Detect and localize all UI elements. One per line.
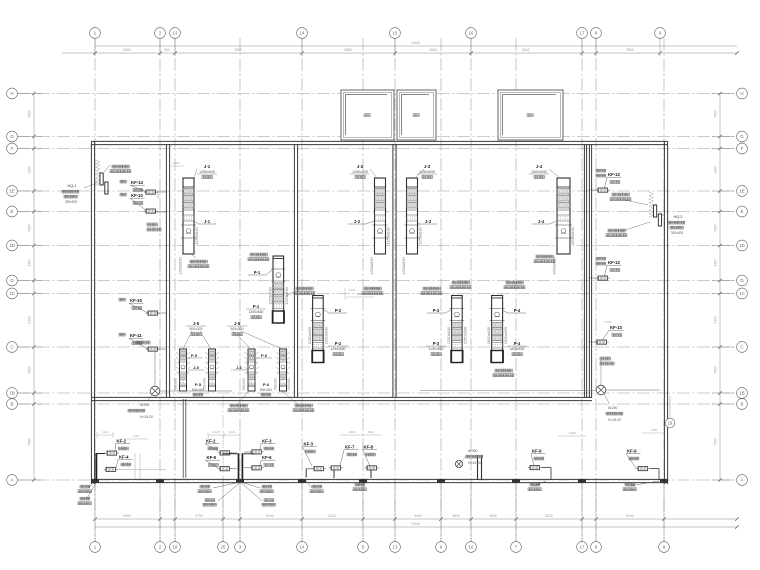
local dimension 2200 at J-1: [168, 161, 184, 166]
svg-text:5400: 5400: [714, 224, 718, 231]
outdoor unit KF-9 a with label: [528, 449, 551, 481]
svg-text:1D: 1D: [739, 243, 745, 248]
grid: vertical axis lines: [95, 38, 664, 542]
svg-text:500x320: 500x320: [260, 388, 272, 392]
outdoor unit KF-12 lower with label: [590, 257, 622, 280]
svg-text:1250x630: 1250x630: [249, 310, 264, 314]
svg-text:5220: 5220: [328, 514, 336, 518]
svg-text:1250x630: 1250x630: [401, 256, 406, 274]
svg-text:J-2: J-2: [354, 219, 361, 224]
svg-text:3600: 3600: [452, 514, 460, 518]
exhaust duct P-2: [307, 296, 328, 363]
svg-text:9300: 9300: [234, 48, 242, 52]
note mesh under J-2: [362, 287, 383, 295]
svg-text:2700: 2700: [605, 320, 612, 324]
svg-text:1C: 1C: [739, 291, 745, 296]
svg-text:1B: 1B: [739, 391, 744, 396]
svg-text:18: 18: [173, 545, 178, 550]
svg-text:2700: 2700: [195, 514, 203, 518]
exhaust duct P-3: [446, 296, 467, 363]
riser pipe arm axis1: [97, 453, 105, 455]
label J-5 block: [183, 321, 211, 349]
label P-1 lower block: [246, 304, 266, 319]
svg-text:H=15.00: H=15.00: [468, 461, 481, 465]
svg-text:17: 17: [580, 31, 585, 36]
svg-text:4560: 4560: [429, 48, 437, 52]
svg-text:KF-4: KF-4: [119, 455, 129, 460]
note mesh HQ-2 above: [610, 193, 648, 205]
svg-text:KF-9: KF-9: [532, 449, 542, 454]
svg-text:4500: 4500: [28, 366, 32, 373]
wall: building bottom wall A: [91, 479, 668, 483]
bottom axis circles: [90, 542, 670, 553]
right dimension chain: [712, 92, 734, 482]
svg-text:500x320: 500x320: [287, 378, 291, 390]
note mesh left of axis13 top: [104, 165, 131, 173]
svg-text:25: 25: [221, 545, 226, 550]
svg-text:8220: 8220: [545, 514, 553, 518]
outdoor unit KF-3 right with label: [303, 442, 326, 478]
svg-text:2,111: 2,111: [229, 430, 236, 434]
svg-text:1600x630: 1600x630: [531, 170, 547, 174]
svg-text:KF-12: KF-12: [608, 172, 621, 177]
wall: interior wall at axis 13: [166, 144, 169, 398]
svg-text:17: 17: [580, 545, 585, 550]
wall: interior wall at axis 15: [393, 144, 396, 398]
wall fan HQ-1: [96, 160, 109, 194]
wall: interior wall at axis 14: [294, 144, 297, 398]
svg-text:J-1: J-1: [204, 164, 211, 169]
svg-text:9000: 9000: [414, 514, 422, 518]
svg-text:1D: 1D: [9, 243, 15, 248]
note mesh right of P-1: [286, 287, 315, 296]
svg-text:4,020: 4,020: [569, 431, 576, 435]
left dimension chain: [18, 92, 42, 482]
svg-text:KF-11: KF-11: [130, 333, 142, 338]
svg-text:P-2: P-2: [335, 341, 342, 346]
local dimensions above KF-7/8: [340, 430, 382, 435]
svg-text:J-5: J-5: [193, 365, 200, 370]
outdoor unit KF-3 mid with label: [244, 439, 276, 455]
svg-text:2200: 2200: [173, 161, 180, 165]
label HQ-2: [660, 212, 685, 235]
svg-text:J-4: J-4: [538, 219, 545, 224]
svg-text:KF-3: KF-3: [262, 439, 272, 444]
roof machine room left B: [397, 90, 436, 140]
svg-text:6000: 6000: [123, 48, 131, 52]
svg-text:HQ-2: HQ-2: [673, 215, 682, 219]
outdoor unit KF-11 with label: [119, 333, 166, 351]
outdoor unit KF-6 with label: [244, 455, 276, 470]
svg-text:J-2: J-2: [357, 164, 364, 169]
label HQ-1: [62, 183, 97, 204]
right axis circles: [737, 88, 748, 485]
supply duct J-1: [178, 178, 200, 275]
svg-text:H: H: [740, 91, 743, 96]
pipe leaders below bottom wall mid: [198, 482, 275, 506]
wall: interior double wall at axis 17-8: [584, 144, 591, 398]
svg-text:5100: 5100: [28, 316, 32, 323]
svg-text:1B: 1B: [9, 391, 14, 396]
svg-text:71045: 71045: [410, 522, 419, 526]
outdoor unit KF-2 left with label: [105, 439, 130, 456]
label J-6 mid: [231, 365, 247, 370]
label J-4 top: [529, 164, 560, 179]
exhaust duct P-1: [268, 256, 289, 323]
note mesh HQ-2 below: [606, 222, 650, 237]
svg-text:1250x630: 1250x630: [419, 170, 435, 174]
svg-text:1250x630: 1250x630: [429, 347, 444, 351]
small duct column J-6/P-6 a: [244, 349, 258, 391]
svg-text:1250x630: 1250x630: [178, 256, 183, 274]
KF-9 local dim line a: [345, 288, 356, 300]
axis circle 19 local: [665, 396, 675, 428]
svg-text:3900: 3900: [626, 48, 634, 52]
svg-text:500x320: 500x320: [192, 388, 204, 392]
label P-2 lower block: [328, 341, 348, 356]
svg-text:320x200: 320x200: [65, 200, 77, 204]
left axis circles: [7, 88, 18, 485]
svg-text:3025: 3025: [156, 191, 160, 198]
svg-text:500x320: 500x320: [242, 378, 246, 390]
svg-text:1250x630: 1250x630: [446, 326, 451, 344]
svg-text:#1200: #1200: [140, 403, 150, 407]
svg-text:D: D: [10, 278, 13, 283]
small duct column J-5/P-5 b: [205, 349, 219, 391]
label P-5 lower: [192, 382, 204, 396]
svg-text:1E: 1E: [739, 189, 744, 194]
svg-text:J-6: J-6: [234, 321, 241, 326]
label J-2 mid: [348, 219, 374, 224]
svg-text:J-6: J-6: [236, 365, 243, 370]
svg-text:500x320: 500x320: [189, 327, 202, 331]
local dimension 1770: [124, 434, 148, 439]
roof machine room right: [498, 90, 563, 140]
size labels 500x320 on small ducts: [174, 378, 292, 390]
wall: interior wall B-line: [91, 397, 592, 400]
svg-text:4500: 4500: [714, 110, 718, 117]
supply duct J-4: [552, 178, 576, 275]
svg-text:3300: 3300: [714, 259, 718, 266]
svg-text:2755: 2755: [651, 428, 658, 432]
svg-text:KF-12: KF-12: [608, 260, 621, 265]
local dimension 3025 left: [156, 191, 160, 198]
svg-text:1250x630: 1250x630: [194, 226, 199, 244]
label P-1 upper: [248, 270, 272, 275]
svg-text:P-3: P-3: [433, 341, 440, 346]
wall fan HQ-2: [649, 192, 662, 226]
svg-text:500x320: 500x320: [174, 378, 178, 390]
svg-text:A: A: [741, 478, 744, 483]
floor drain mid-bottom: [455, 449, 482, 468]
label P-4 lower block: [507, 341, 527, 356]
svg-text:1250x630: 1250x630: [284, 286, 289, 304]
svg-text:P-5: P-5: [195, 382, 202, 387]
label J-3 mid: [417, 219, 437, 224]
outdoor unit KF-9 b with label: [626, 449, 659, 481]
local dimension 4225 mid lower: [346, 292, 374, 297]
svg-text:6642: 6642: [522, 48, 530, 52]
svg-text:1600x630: 1600x630: [570, 226, 575, 244]
supply duct J-3: [401, 178, 423, 275]
local dimension 4020: [558, 431, 586, 436]
outdoor unit KF-7 with label: [329, 445, 359, 479]
outdoor unit KF-2 mid with label: [205, 439, 237, 456]
refrigerant pipe drop near axis 1: [183, 399, 186, 478]
bottom dimension chain: [93, 478, 739, 542]
svg-text:13: 13: [393, 545, 398, 550]
svg-text:15: 15: [393, 31, 398, 36]
svg-text:1250x630: 1250x630: [386, 226, 391, 244]
svg-text:3300: 3300: [28, 259, 32, 266]
svg-text:16: 16: [469, 545, 474, 550]
svg-text:19: 19: [668, 421, 673, 426]
svg-text:7500: 7500: [714, 438, 718, 445]
svg-text:KF-2: KF-2: [117, 439, 127, 444]
svg-text:1770: 1770: [133, 434, 140, 438]
svg-text:320x200: 320x200: [671, 231, 683, 235]
small duct column J-6/P-6 b: [276, 349, 290, 391]
note mesh under J-3: [421, 287, 442, 295]
svg-text:2,110: 2,110: [102, 430, 109, 434]
svg-text:1600x630: 1600x630: [486, 326, 491, 344]
roof drain at axis14 B: [128, 352, 232, 419]
svg-text:J-3: J-3: [424, 164, 431, 169]
svg-text:6000: 6000: [123, 514, 131, 518]
small duct column J-5/P-5 a: [176, 349, 190, 391]
riser pipes at axis 1: [95, 453, 97, 480]
svg-text:1250x630: 1250x630: [268, 286, 273, 304]
svg-text:KF-9: KF-9: [627, 449, 637, 454]
wall: building left wall: [91, 141, 94, 484]
svg-text:1250x630: 1250x630: [323, 326, 328, 344]
svg-text:KF-5: KF-5: [207, 455, 217, 460]
label J-2 top: [350, 164, 377, 179]
svg-text:P-2: P-2: [335, 308, 342, 313]
svg-text:KF-13: KF-13: [610, 325, 623, 330]
svg-text:J-5: J-5: [193, 321, 200, 326]
note mesh above P-4: [504, 281, 525, 289]
svg-text:P-6: P-6: [261, 353, 268, 358]
local dimension 2110 left bottom: [97, 430, 113, 438]
local dimension 2755 right: [642, 428, 666, 433]
svg-text:1250x630: 1250x630: [462, 326, 467, 344]
svg-text:KF-7: KF-7: [345, 445, 355, 450]
svg-text:5580: 5580: [344, 48, 352, 52]
outdoor unit KF-13 with label: [590, 320, 624, 365]
svg-text:4200: 4200: [28, 166, 32, 173]
outdoor unit KF-14 with label: [120, 180, 166, 194]
svg-text:H: H: [10, 91, 13, 96]
svg-text:900: 900: [164, 48, 170, 52]
svg-text:1250x630: 1250x630: [331, 347, 346, 351]
svg-text:J-1: J-1: [204, 219, 211, 224]
svg-text:8100: 8100: [266, 514, 274, 518]
outdoor unit KF-10 with label: [120, 193, 166, 231]
svg-text:P-3: P-3: [433, 308, 440, 313]
svg-text:2,125: 2,125: [349, 288, 356, 292]
svg-text:1250x630: 1250x630: [418, 226, 423, 244]
svg-text:4500: 4500: [28, 110, 32, 117]
label P-3 upper: [427, 308, 451, 313]
outdoor unit KF-8 with label: [363, 445, 379, 479]
top axis circles: [90, 28, 666, 39]
note mesh under J-4: [534, 255, 555, 263]
svg-text:7500: 7500: [28, 438, 32, 445]
label J-5 mid: [188, 365, 204, 370]
svg-text:E: E: [741, 209, 744, 214]
note mesh below small ducts b: [283, 392, 314, 412]
svg-text:8100: 8100: [626, 514, 634, 518]
label J-6 block: [227, 321, 282, 349]
svg-text:B: B: [11, 402, 14, 407]
svg-text:H=15.00: H=15.00: [140, 415, 153, 419]
supply duct J-2: [369, 178, 391, 275]
svg-text:71045: 71045: [410, 41, 419, 45]
svg-text:1600x630: 1600x630: [510, 347, 525, 351]
svg-text:2,125: 2,125: [213, 430, 220, 434]
note mesh under J-1: [188, 254, 209, 268]
outdoor unit KF-12 upper with label: [590, 169, 622, 192]
svg-text:14: 14: [300, 545, 305, 550]
label J-1 mid: [194, 219, 216, 224]
note mesh below small ducts a: [228, 392, 249, 412]
svg-text:C: C: [740, 345, 743, 350]
svg-text:J-3: J-3: [425, 219, 432, 224]
svg-text:1250x630: 1250x630: [352, 170, 368, 174]
svg-text:F: F: [741, 146, 744, 151]
svg-text:500x320: 500x320: [230, 327, 243, 331]
svg-text:G: G: [10, 134, 14, 139]
svg-text:1600x630: 1600x630: [503, 326, 508, 344]
label P-5 upper: [186, 353, 202, 358]
svg-text:4500: 4500: [489, 514, 497, 518]
svg-text:KF-3: KF-3: [304, 442, 314, 447]
svg-text:16: 16: [469, 31, 474, 36]
label P-4 upper: [502, 308, 526, 313]
svg-text:P-6: P-6: [263, 382, 270, 387]
svg-text:J-4: J-4: [536, 164, 543, 169]
svg-text:1E: 1E: [9, 189, 14, 194]
svg-text:1250x630: 1250x630: [307, 326, 312, 344]
note mesh near HQ-2 upper: [493, 369, 514, 377]
riser pipes at axis 3: [223, 453, 255, 479]
svg-text:P-1: P-1: [253, 304, 260, 309]
note mesh above P-3: [450, 281, 471, 289]
svg-text:KF-10: KF-10: [131, 193, 144, 198]
label J-3 top: [415, 164, 437, 179]
svg-text:P-1: P-1: [254, 270, 261, 275]
riser pipes at axis 16: [478, 455, 482, 480]
svg-text:H=15.00: H=15.00: [608, 418, 621, 422]
svg-text:4,225: 4,225: [357, 292, 364, 296]
svg-text:B: B: [741, 402, 744, 407]
label P-6 lower: [260, 382, 272, 396]
svg-text:1250x630: 1250x630: [199, 170, 215, 174]
outdoor unit KF-5 with label: [206, 455, 238, 471]
svg-text:C: C: [10, 345, 13, 350]
svg-text:1C: 1C: [9, 291, 15, 296]
svg-text:2911: 2911: [368, 430, 374, 434]
svg-text:500x320: 500x320: [274, 378, 278, 390]
svg-text:P-5: P-5: [191, 353, 198, 358]
svg-text:KF-2: KF-2: [206, 439, 216, 444]
svg-text:D: D: [740, 278, 743, 283]
svg-text:F: F: [11, 146, 14, 151]
label J-1 top: [194, 164, 217, 179]
pipe leaders below bottom wall right of axis3: [306, 481, 659, 493]
local dimension 2125 2111 mid bottom: [208, 430, 240, 438]
wall: building right wall: [664, 141, 667, 484]
svg-text:5100: 5100: [714, 316, 718, 323]
pipe leaders below bottom wall left: [78, 483, 96, 505]
svg-text:A: A: [11, 478, 14, 483]
grid: horizontal axis lines: [17, 94, 737, 481]
label J-4 mid: [532, 219, 556, 224]
svg-text:P-4: P-4: [514, 341, 521, 346]
svg-text:KF-6: KF-6: [262, 455, 272, 460]
svg-text:KF-10: KF-10: [130, 298, 143, 303]
svg-text:4200: 4200: [714, 166, 718, 173]
svg-text:1250x630: 1250x630: [369, 256, 374, 274]
wall: building top wall: [91, 141, 668, 144]
outdoor unit KF-4 left with label: [104, 454, 166, 480]
outdoor unit KF-10 mid-left with label: [119, 298, 166, 315]
svg-text:2933: 2933: [349, 430, 356, 434]
label P-3 lower block: [426, 341, 446, 356]
svg-text:5400: 5400: [28, 224, 32, 231]
svg-text:KF-14: KF-14: [131, 180, 144, 185]
svg-text:14: 14: [300, 31, 305, 36]
label P-2 upper: [324, 308, 347, 313]
svg-text:#1000: #1000: [468, 449, 478, 453]
roof machine room left A: [341, 90, 394, 140]
exhaust duct P-4: [486, 296, 508, 363]
top dimension chain: [62, 38, 739, 56]
svg-text:1600x630: 1600x630: [552, 256, 557, 274]
note mesh above P-1: [248, 253, 269, 261]
roof drain right of axis 8: [420, 360, 660, 422]
svg-text:E: E: [11, 209, 14, 214]
svg-text:HQ-1: HQ-1: [67, 184, 76, 188]
svg-text:4500: 4500: [714, 366, 718, 373]
label P-6 upper: [256, 353, 272, 358]
svg-text:13: 13: [173, 31, 178, 36]
svg-text:G: G: [740, 134, 744, 139]
svg-text:#1200: #1200: [608, 406, 618, 410]
svg-text:KF-8: KF-8: [364, 445, 374, 450]
svg-text:P-4: P-4: [514, 308, 521, 313]
